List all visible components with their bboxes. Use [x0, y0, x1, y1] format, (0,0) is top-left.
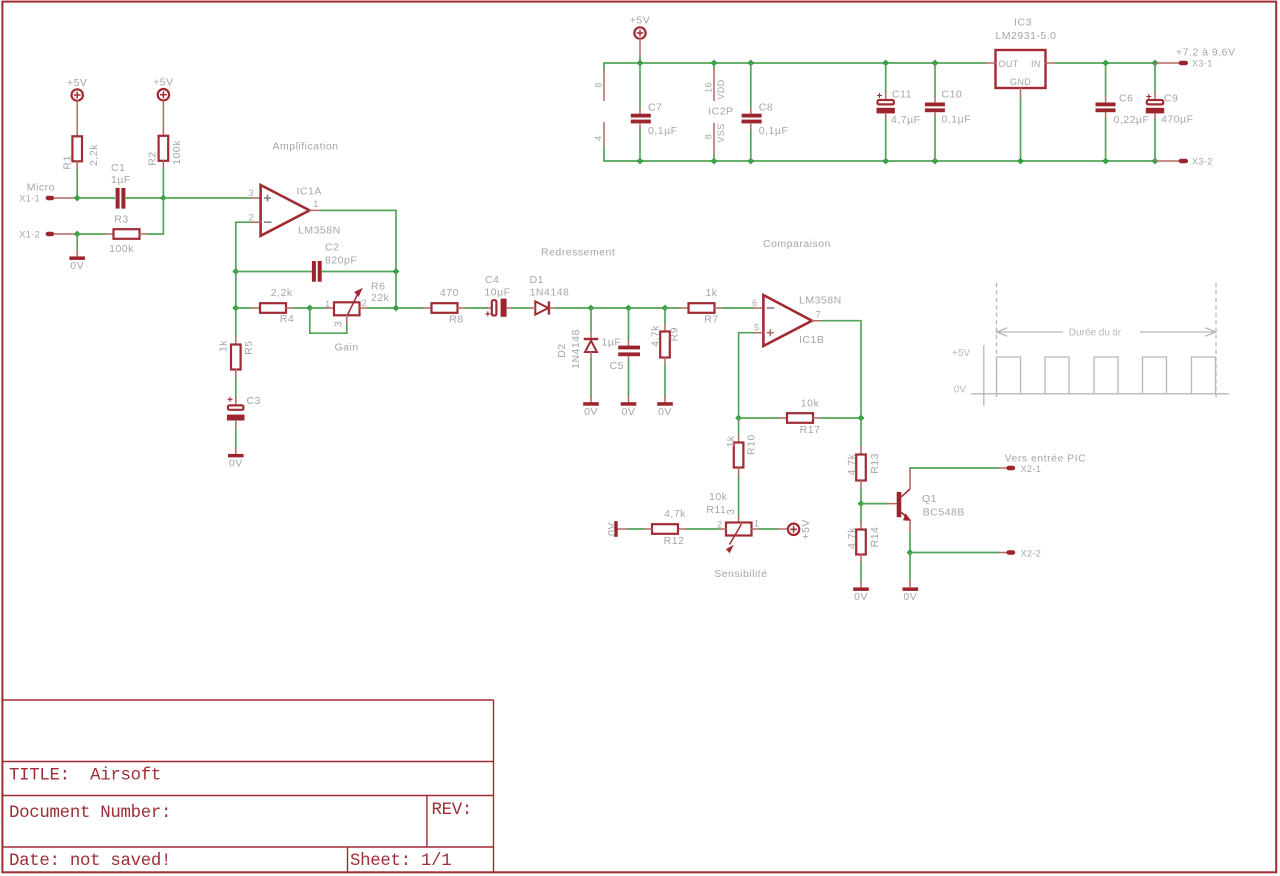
svg-text:R2: R2 — [147, 151, 159, 165]
wire — [235, 308, 237, 337]
wire — [909, 533, 911, 553]
connector pad X1-2 — [46, 232, 55, 236]
svg-text:C10: C10 — [942, 89, 963, 101]
node R17 right — [858, 415, 865, 422]
ground 0V (Q1) — [903, 587, 919, 603]
resistor R9 — [650, 325, 681, 358]
svg-text:Vers entrée PIC: Vers entrée PIC — [1005, 453, 1087, 465]
wire — [664, 397, 666, 403]
svg-text:LM358N: LM358N — [298, 224, 341, 236]
wire — [934, 112, 936, 118]
resistor R13 — [846, 453, 881, 480]
wire — [76, 169, 78, 198]
svg-text:10k: 10k — [709, 491, 728, 503]
connector pad X3-1 — [1179, 61, 1188, 65]
svg-text:LM358N: LM358N — [799, 294, 842, 306]
connector pad X3-2 — [1179, 159, 1188, 163]
resistor R10 — [725, 434, 757, 467]
node X2-2 junction — [907, 549, 914, 556]
svg-text:R14: R14 — [869, 527, 881, 548]
wire — [346, 316, 348, 324]
wire — [163, 197, 250, 199]
wire — [590, 359, 592, 397]
potentiometer R6 22k (Gain) — [325, 281, 390, 354]
wire — [934, 63, 936, 97]
connector pad X2-1 — [1006, 466, 1015, 470]
wire — [1020, 88, 1022, 98]
svg-text:3: 3 — [249, 188, 254, 198]
svg-text:0V: 0V — [658, 406, 672, 418]
node R2 junction — [160, 195, 167, 202]
wire — [368, 307, 397, 309]
node C10 bottom — [932, 158, 939, 165]
wire — [235, 222, 237, 271]
wire — [665, 307, 681, 309]
wire — [779, 417, 787, 419]
wire — [885, 113, 887, 119]
svg-text:D2: D2 — [556, 343, 568, 357]
svg-text:+5V: +5V — [952, 348, 970, 359]
node D1 out — [588, 305, 595, 312]
svg-text:8: 8 — [704, 134, 714, 139]
wire — [909, 581, 911, 587]
resistor R7 — [689, 287, 719, 325]
potentiometer R11 10k (Sensibilité) — [706, 491, 767, 580]
svg-text:0V: 0V — [229, 458, 243, 470]
svg-text:3: 3 — [725, 509, 737, 515]
capacitor C3 (polarized) — [227, 395, 261, 421]
resistor R17 — [787, 397, 820, 436]
wire — [1154, 120, 1156, 162]
resistor R8 — [432, 287, 464, 325]
svg-text:+5V: +5V — [67, 77, 87, 89]
wire IN rail — [1056, 62, 1156, 64]
power pins IC2P (VDD 16 / VSS 8) — [704, 60, 734, 165]
svg-text:0V: 0V — [622, 406, 636, 418]
resistor R4 — [260, 287, 294, 325]
diode D1 1N4148 — [530, 274, 570, 315]
wire — [752, 528, 760, 530]
capacitor C4 10µF (polarized) — [484, 274, 510, 317]
wire — [507, 307, 512, 309]
wire — [395, 272, 397, 309]
wire — [750, 130, 752, 161]
svg-text:0V: 0V — [584, 406, 598, 418]
wire — [162, 161, 164, 169]
wire — [106, 233, 114, 235]
wire — [715, 307, 723, 309]
wire — [999, 467, 1007, 469]
wire — [466, 307, 488, 309]
wire — [639, 57, 641, 63]
svg-text:GND: GND — [1010, 77, 1031, 87]
wire — [664, 358, 666, 366]
ground 0V (D2) — [583, 402, 599, 418]
wire — [360, 307, 368, 309]
svg-text:R4: R4 — [280, 313, 294, 325]
node IC2P bottom — [711, 158, 718, 165]
wire — [76, 250, 78, 257]
wire — [603, 63, 605, 71]
wire — [77, 233, 105, 235]
node C8 bottom — [747, 158, 754, 165]
wire — [738, 476, 740, 517]
svg-text:1: 1 — [325, 299, 330, 309]
resistor R3 — [109, 213, 139, 254]
svg-text:Gain: Gain — [335, 342, 359, 354]
node IC3 GND — [1017, 158, 1024, 165]
node X1-2 junction — [74, 231, 81, 238]
wire — [885, 120, 887, 162]
wire — [1155, 62, 1179, 64]
node R4-R6 junction — [306, 305, 313, 312]
wire — [590, 308, 592, 331]
wire — [934, 119, 936, 162]
wire — [396, 307, 424, 309]
svg-text:IC2P: IC2P — [708, 106, 733, 118]
op-amp IC1B — [752, 294, 842, 346]
wire — [628, 341, 630, 346]
wire — [590, 331, 592, 338]
wire — [235, 428, 237, 449]
wire — [644, 528, 652, 530]
wire — [738, 333, 740, 418]
wire — [860, 489, 862, 504]
wire — [512, 307, 530, 309]
wire — [860, 418, 862, 447]
title block frame — [2, 700, 493, 872]
wire — [235, 449, 237, 455]
capacitor C1 1µF — [111, 162, 131, 209]
wire — [236, 271, 312, 273]
svg-text:C11: C11 — [892, 89, 912, 101]
svg-text:Sensibilité: Sensibilité — [714, 568, 767, 580]
svg-text:16: 16 — [704, 82, 714, 93]
svg-text:VDD: VDD — [716, 79, 726, 99]
svg-text:R3: R3 — [114, 213, 128, 225]
wire — [885, 93, 887, 99]
wire — [326, 307, 334, 309]
wire — [885, 63, 887, 93]
waveform diagram (Durée du tir) — [952, 283, 1229, 406]
wire — [750, 108, 752, 114]
node C2 left — [232, 268, 239, 275]
node C5 top — [625, 305, 632, 312]
wire — [860, 522, 862, 530]
svg-text:4,7k: 4,7k — [650, 325, 662, 347]
wire — [530, 307, 535, 309]
wire — [860, 555, 862, 563]
node C6 top — [1102, 60, 1109, 67]
wire — [750, 63, 752, 108]
wire — [618, 528, 628, 530]
wire — [235, 337, 237, 345]
ground 0V (R14) — [853, 587, 869, 603]
wire — [628, 528, 644, 530]
svg-text:4,7k: 4,7k — [664, 508, 686, 520]
svg-text:D1: D1 — [530, 274, 544, 286]
wire — [235, 421, 237, 429]
svg-text:0V: 0V — [70, 260, 84, 272]
svg-text:1µF: 1µF — [602, 337, 622, 349]
capacitor C7 0,1µF — [631, 63, 678, 161]
ground 0V (X1-2) — [69, 256, 85, 272]
wire — [713, 63, 715, 69]
svg-text:2,2k: 2,2k — [88, 144, 100, 166]
svg-text:1k: 1k — [705, 287, 717, 299]
connector pad X2-2 — [1006, 550, 1015, 554]
svg-text:Date: not saved!: Date: not saved! — [9, 852, 171, 871]
wire — [1154, 63, 1156, 93]
wire — [76, 234, 78, 250]
wire — [718, 528, 726, 530]
wire — [760, 528, 778, 530]
svg-text:X3-1: X3-1 — [1192, 58, 1213, 68]
svg-text:0,1µF: 0,1µF — [942, 114, 972, 126]
voltage regulator IC3 LM2931-5.0 — [995, 17, 1056, 88]
capacitor C10 0,1µF — [925, 63, 971, 161]
svg-text:1: 1 — [313, 199, 318, 209]
wire — [1154, 93, 1156, 99]
svg-text:IN: IN — [1031, 59, 1041, 69]
resistor R5 — [218, 340, 256, 370]
node C11 bottom — [882, 158, 889, 165]
svg-text:C6: C6 — [1119, 93, 1133, 105]
wire — [738, 468, 740, 476]
svg-text:0,22µF: 0,22µF — [1114, 114, 1150, 126]
svg-text:X2-2: X2-2 — [1021, 548, 1042, 558]
wire — [1105, 119, 1107, 162]
wire — [639, 39, 641, 57]
svg-text:C4: C4 — [485, 274, 499, 286]
wire — [591, 307, 629, 309]
wire — [778, 528, 788, 530]
svg-text:R9: R9 — [669, 327, 681, 341]
svg-text:4,7µF: 4,7µF — [891, 114, 921, 126]
wire — [320, 209, 396, 211]
svg-text:820pF: 820pF — [325, 255, 357, 267]
ground 0V (R9) — [657, 402, 673, 418]
wire — [458, 307, 466, 309]
wire — [628, 361, 630, 396]
wire — [822, 320, 861, 322]
wire — [162, 198, 164, 234]
svg-text:4: 4 — [594, 135, 604, 140]
wire — [235, 378, 237, 399]
svg-text:0V: 0V — [854, 591, 868, 603]
svg-text:6: 6 — [752, 298, 757, 308]
wire +5V top rail — [604, 62, 986, 64]
svg-text:10k: 10k — [801, 397, 820, 409]
capacitor C6 0,22µF — [1096, 63, 1150, 161]
wire — [310, 209, 321, 211]
svg-text:C8: C8 — [759, 102, 773, 114]
wire — [286, 307, 294, 309]
wire — [54, 197, 77, 199]
capacitor C5 1µF — [602, 337, 641, 373]
svg-text:0,1µF: 0,1µF — [648, 125, 678, 137]
wire — [664, 324, 666, 332]
wire — [821, 417, 861, 419]
wire — [860, 562, 862, 582]
wire — [986, 62, 996, 64]
wire — [294, 307, 310, 309]
supply +5V (rail) — [630, 15, 650, 39]
svg-text:3: 3 — [332, 321, 344, 327]
svg-text:R17: R17 — [800, 424, 821, 436]
wire — [162, 101, 164, 136]
wire — [860, 582, 862, 588]
svg-text:C1: C1 — [111, 162, 125, 174]
svg-text:10µF: 10µF — [484, 287, 510, 299]
node C2 right — [393, 268, 400, 275]
svg-text:X3-2: X3-2 — [1192, 157, 1213, 167]
wire — [1105, 112, 1107, 118]
wire — [488, 307, 493, 309]
svg-text:0,1µF: 0,1µF — [759, 125, 789, 137]
wire — [251, 197, 261, 199]
svg-text:100k: 100k — [171, 140, 183, 165]
node Q1 base junction — [858, 500, 865, 507]
svg-text:0V: 0V — [954, 385, 967, 396]
resistor R12 — [652, 508, 686, 547]
svg-text:IC1A: IC1A — [297, 186, 322, 198]
svg-text:4,7k: 4,7k — [846, 527, 858, 549]
wire — [235, 370, 237, 378]
wire — [909, 467, 911, 469]
wire — [148, 233, 164, 235]
svg-text:+7.2 à 9,6V: +7.2 à 9,6V — [1176, 47, 1236, 59]
power pins IC1P (LM358 pins 8/4) — [594, 63, 605, 161]
transistor Q1 BC548B — [897, 468, 965, 533]
wire — [590, 352, 592, 359]
svg-text:5: 5 — [754, 323, 759, 333]
resistor R2 — [147, 136, 183, 166]
svg-text:0V: 0V — [606, 522, 618, 536]
capacitor C11 4,7µF (polarized) — [877, 63, 921, 161]
wire — [860, 481, 862, 489]
node X1-1 junction — [74, 195, 81, 202]
wire — [664, 308, 666, 324]
wire — [681, 307, 689, 309]
wire — [639, 130, 641, 161]
svg-text:7: 7 — [816, 310, 821, 320]
wire — [812, 320, 822, 322]
wire — [909, 553, 911, 582]
wire — [603, 147, 605, 161]
capacitor C2 820pF — [312, 242, 357, 282]
svg-text:X2-1: X2-1 — [1021, 464, 1042, 474]
resistor R14 — [846, 527, 881, 555]
wire — [310, 307, 326, 309]
wire — [860, 447, 862, 455]
diode D2 1N4148 — [556, 329, 598, 369]
wire — [628, 397, 630, 403]
node R17 left — [735, 415, 742, 422]
svg-text:REV:: REV: — [432, 801, 473, 820]
svg-text:0V: 0V — [903, 591, 917, 603]
wire — [738, 517, 740, 523]
svg-text:Micro: Micro — [27, 182, 55, 194]
wire — [639, 108, 641, 114]
wire — [910, 552, 999, 554]
wire — [125, 197, 163, 199]
wire — [639, 63, 641, 108]
wire — [999, 552, 1007, 554]
wire — [424, 307, 432, 309]
connector pad X1-1 — [46, 196, 55, 200]
wire — [739, 417, 779, 419]
node R4 left — [232, 305, 239, 312]
wire — [738, 435, 740, 443]
svg-text:R6: R6 — [371, 281, 385, 293]
wire — [813, 417, 821, 419]
svg-text:1µF: 1µF — [111, 174, 131, 186]
svg-text:BC548B: BC548B — [923, 507, 965, 519]
svg-text:+5V: +5V — [153, 77, 173, 89]
svg-text:IC1B: IC1B — [799, 334, 824, 346]
wire — [910, 467, 999, 469]
svg-text:R10: R10 — [745, 434, 757, 455]
wire — [713, 155, 715, 161]
supply +5V (R1) — [72, 89, 83, 100]
node IC2P top — [711, 60, 718, 67]
wire 0V bottom rail — [604, 160, 1155, 162]
supply +5V (R11) — [788, 519, 812, 539]
svg-text:X1-2: X1-2 — [19, 229, 40, 239]
svg-text:IC3: IC3 — [1014, 17, 1032, 29]
wire — [76, 161, 78, 169]
wire — [322, 271, 396, 273]
wire — [861, 503, 889, 505]
svg-text:C9: C9 — [1164, 93, 1178, 105]
wire — [629, 307, 666, 309]
wire — [686, 528, 718, 530]
wire — [395, 210, 397, 271]
node C9 bottom — [1152, 158, 1159, 165]
svg-text:VSS: VSS — [716, 123, 726, 142]
wire — [235, 399, 237, 405]
svg-text:C5: C5 — [610, 360, 624, 372]
svg-text:Durée du tir: Durée du tir — [1069, 327, 1122, 338]
node C8 top — [747, 60, 754, 67]
wire — [556, 307, 591, 309]
svg-text:470µF: 470µF — [1161, 114, 1193, 126]
wire — [860, 504, 862, 522]
wire — [236, 221, 251, 223]
svg-text:R11: R11 — [706, 504, 726, 516]
wire — [235, 272, 237, 309]
wire — [753, 307, 763, 309]
wire — [1155, 160, 1179, 162]
supply +5V (R2) — [158, 89, 169, 100]
node C6 bottom — [1102, 158, 1109, 165]
wire — [252, 307, 260, 309]
node C9 top — [1152, 60, 1159, 67]
wire — [1154, 113, 1156, 119]
svg-text:+5V: +5V — [800, 519, 812, 539]
svg-text:C3: C3 — [247, 395, 261, 407]
wire — [1020, 98, 1022, 161]
ground 0V (C5) — [621, 402, 637, 418]
svg-text:470: 470 — [440, 287, 459, 299]
svg-text:100k: 100k — [109, 243, 134, 255]
wire — [889, 503, 897, 505]
wire — [628, 308, 630, 341]
svg-text:+5V: +5V — [630, 15, 650, 27]
wire — [76, 101, 78, 136]
svg-text:R8: R8 — [449, 314, 463, 326]
